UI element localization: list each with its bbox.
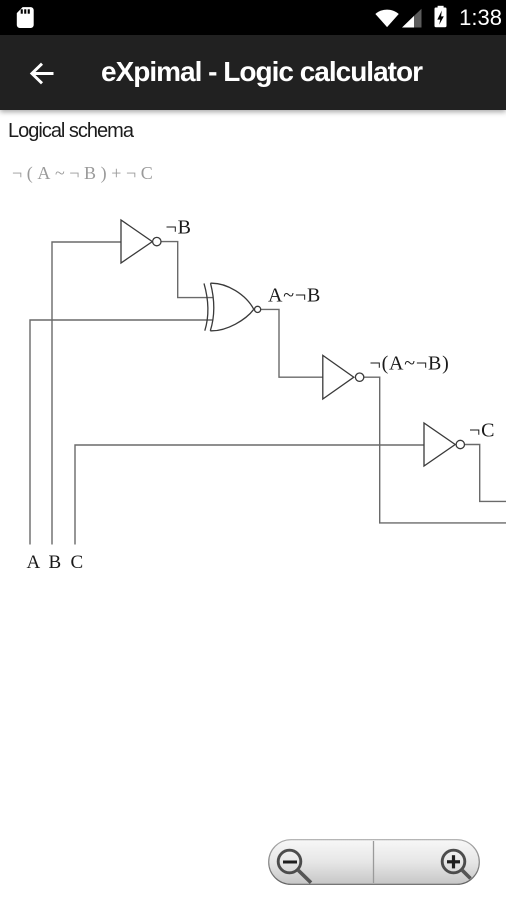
svg-text:¬B: ¬B xyxy=(166,217,192,239)
svg-text:B: B xyxy=(49,552,62,573)
svg-text:A~¬B: A~¬B xyxy=(268,285,321,307)
svg-text:C: C xyxy=(71,552,84,573)
svg-text:¬(A~¬B): ¬(A~¬B) xyxy=(370,353,450,375)
svg-text:¬C: ¬C xyxy=(469,420,495,442)
svg-text:A: A xyxy=(27,552,41,573)
